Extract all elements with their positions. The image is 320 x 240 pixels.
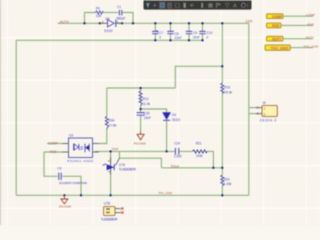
capacitor C7 — [152, 30, 163, 39]
svg-text:TH1_GND: TH1_GND — [303, 45, 319, 49]
svg-text:5Vout: 5Vout — [171, 164, 179, 168]
junction D4 bottom on Vout — [165, 150, 167, 152]
resistor R20 — [221, 175, 232, 186]
wire cap C9 leads — [188, 23, 190, 40]
diode D6 — [100, 17, 122, 33]
svg-text:TL431IDBVR: TL431IDBVR — [119, 168, 137, 172]
svg-text:TL431IDBVR: TL431IDBVR — [101, 218, 118, 222]
wire lower rail y40 — [16, 39, 203, 41]
wire RC loop — [85, 13, 96, 24]
junction C8 bottom — [169, 39, 171, 41]
junction DG-GND on bus — [63, 194, 65, 196]
svg-text:C9: C9 — [193, 31, 197, 35]
junction y66 x222 — [221, 65, 223, 67]
svg-text:SD23: SD23 — [172, 118, 180, 122]
shunt regulator U7A TL431 — [103, 157, 137, 174]
junction R13 bottom node — [139, 108, 141, 110]
capacitor C9 — [186, 31, 200, 39]
svg-text:PG-GND: PG-GND — [134, 141, 147, 145]
junction TL431 anode on bus — [109, 194, 111, 196]
svg-text:RXD: RXD — [307, 22, 314, 26]
port RXD — [267, 22, 315, 28]
svg-text:C10: C10 — [207, 31, 213, 35]
wire TL431 ref — [119, 151, 161, 167]
junction C10 top — [201, 22, 203, 24]
svg-text:U7B: U7B — [104, 202, 110, 206]
optocoupler U3 — [63, 133, 100, 163]
svg-text:R21: R21 — [196, 142, 202, 146]
junction D6 cathode — [121, 22, 123, 24]
svg-text:COMP: COMP — [306, 13, 315, 17]
wire left vertical — [15, 40, 17, 195]
svg-text:1.5nF: 1.5nF — [174, 155, 182, 159]
wire cap C10 leads — [202, 23, 204, 40]
capacitor C30 — [137, 111, 152, 120]
wire y88 branch — [107, 87, 176, 89]
connector J5 — [256, 101, 277, 123]
wire C30 to gnd — [140, 116, 142, 131]
svg-text:COMP: COMP — [272, 15, 282, 19]
junction C7 bottom — [154, 39, 156, 41]
junction C10 bottom — [201, 39, 203, 41]
wire D4 down — [166, 120, 168, 151]
svg-text:10nF: 10nF — [193, 36, 200, 40]
junction C9 top — [188, 22, 190, 24]
svg-text:TH1_GND: TH1_GND — [271, 46, 289, 50]
junction Vout TL431 cathode — [109, 150, 111, 152]
svg-text:13K: 13K — [96, 14, 103, 18]
svg-text:0: 0 — [159, 35, 161, 39]
svg-text:10nF: 10nF — [174, 36, 181, 40]
svg-text:DG-GND: DG-GND — [59, 205, 72, 209]
junction x222 y168 — [221, 167, 223, 169]
svg-text:DUTY: DUTY — [306, 36, 314, 40]
svg-text:PS2801-4SED: PS2801-4SED — [67, 159, 94, 163]
junction top rail x222 — [221, 22, 223, 24]
toolbar — [144, 0, 252, 10]
capacitor C1 — [116, 5, 125, 20]
capacitor C24 — [174, 142, 182, 159]
svg-text:U7A: U7A — [119, 163, 126, 167]
svg-text:C1: C1 — [117, 5, 121, 9]
wire y167.8 — [161, 167, 222, 169]
wire Vout net — [95, 150, 193, 152]
port COMP — [267, 13, 316, 19]
wire y109 to D4 — [141, 109, 167, 112]
capacitor C8 — [167, 31, 181, 40]
wire right drop to ground bus — [248, 23, 250, 195]
svg-text:26304-2: 26304-2 — [260, 119, 277, 123]
svg-text:11.4k: 11.4k — [143, 102, 151, 106]
resistor R13 — [139, 91, 150, 106]
capacitor C10 — [199, 31, 212, 39]
wire cap C7 leads — [154, 23, 156, 40]
svg-text:DUTY: DUTY — [272, 37, 282, 41]
regulator U7B spare — [101, 202, 124, 222]
wire TL431 cathode — [110, 151, 112, 157]
power port DG-GND — [61, 195, 68, 204]
svg-text:C30: C30 — [144, 111, 150, 115]
svg-text:Vout: Vout — [112, 147, 118, 151]
svg-text:R34: R34 — [109, 118, 115, 122]
svg-text:1.43k: 1.43k — [224, 182, 232, 186]
svg-text:C24: C24 — [174, 142, 180, 146]
svg-text:TH1_GND: TH1_GND — [158, 191, 173, 195]
capacitor C4 — [57, 166, 87, 185]
resistor R19 — [221, 83, 233, 94]
wire TL431 anode — [110, 175, 112, 196]
wire cap C8 leads — [170, 23, 172, 40]
svg-text:R19: R19 — [224, 85, 230, 89]
svg-text:RXD: RXD — [272, 24, 279, 28]
svg-text:R13: R13 — [143, 97, 149, 101]
wire R34 chain — [99, 88, 107, 144]
svg-text:AUTH: AUTH — [60, 20, 70, 24]
junction loop left on AUTH rail — [83, 22, 85, 24]
junction C8 top — [169, 22, 171, 24]
svg-text:RXD: RXD — [50, 150, 57, 154]
wire ground bus — [16, 194, 249, 196]
junction C4 on bus — [80, 194, 82, 196]
svg-text:ES1D: ES1D — [104, 29, 113, 33]
svg-text:R1: R1 — [96, 7, 100, 11]
svg-text:C8: C8 — [174, 32, 178, 36]
svg-text:2012B3FY160BT04E: 2012B3FY160BT04E — [59, 181, 87, 185]
resistor R1 — [96, 7, 104, 18]
junction C7 top — [154, 22, 156, 24]
svg-text:D6: D6 — [105, 17, 109, 21]
svg-text:D4: D4 — [172, 113, 176, 117]
junction C9 bottom — [188, 39, 190, 41]
junction loop right — [132, 22, 134, 24]
wire RXD — [44, 151, 63, 153]
svg-text:100k: 100k — [196, 154, 203, 158]
wire C4 chain — [44, 152, 81, 195]
svg-text:15nF: 15nF — [144, 116, 151, 120]
svg-text:29.4k: 29.4k — [224, 90, 232, 94]
wire AUTH net top rail — [16, 13, 256, 196]
wire y66 branch — [175, 66, 222, 88]
junction D6 anode — [99, 22, 101, 24]
wire COMP — [47, 143, 63, 145]
wire J5 stubs — [249, 107, 256, 109]
svg-text:C7: C7 — [159, 31, 163, 35]
svg-text:100F: 100F — [245, 19, 253, 23]
left window edge — [0, 0, 1, 225]
svg-text:J5: J5 — [262, 101, 266, 105]
svg-text:17.8k: 17.8k — [109, 123, 117, 127]
junction R20 on bus — [221, 194, 223, 196]
wire x222 vertical — [221, 23, 223, 195]
svg-text:COMP: COMP — [48, 141, 58, 145]
svg-text:C4: C4 — [57, 166, 61, 170]
junction R13 top — [139, 87, 141, 89]
junction x213 y168 — [212, 167, 214, 169]
resistor R34 — [105, 117, 117, 130]
wire R13 chain — [140, 88, 142, 112]
svg-text:680pF: 680pF — [116, 16, 125, 20]
power port PG-GND — [137, 131, 144, 140]
port DUTY — [267, 36, 315, 42]
port TH1_GND — [265, 45, 319, 51]
resistor R21 — [193, 142, 208, 158]
svg-text:0: 0 — [207, 36, 209, 40]
svg-text:R20: R20 — [224, 177, 230, 181]
svg-text:U3: U3 — [69, 133, 73, 137]
diode D4 — [163, 113, 181, 122]
